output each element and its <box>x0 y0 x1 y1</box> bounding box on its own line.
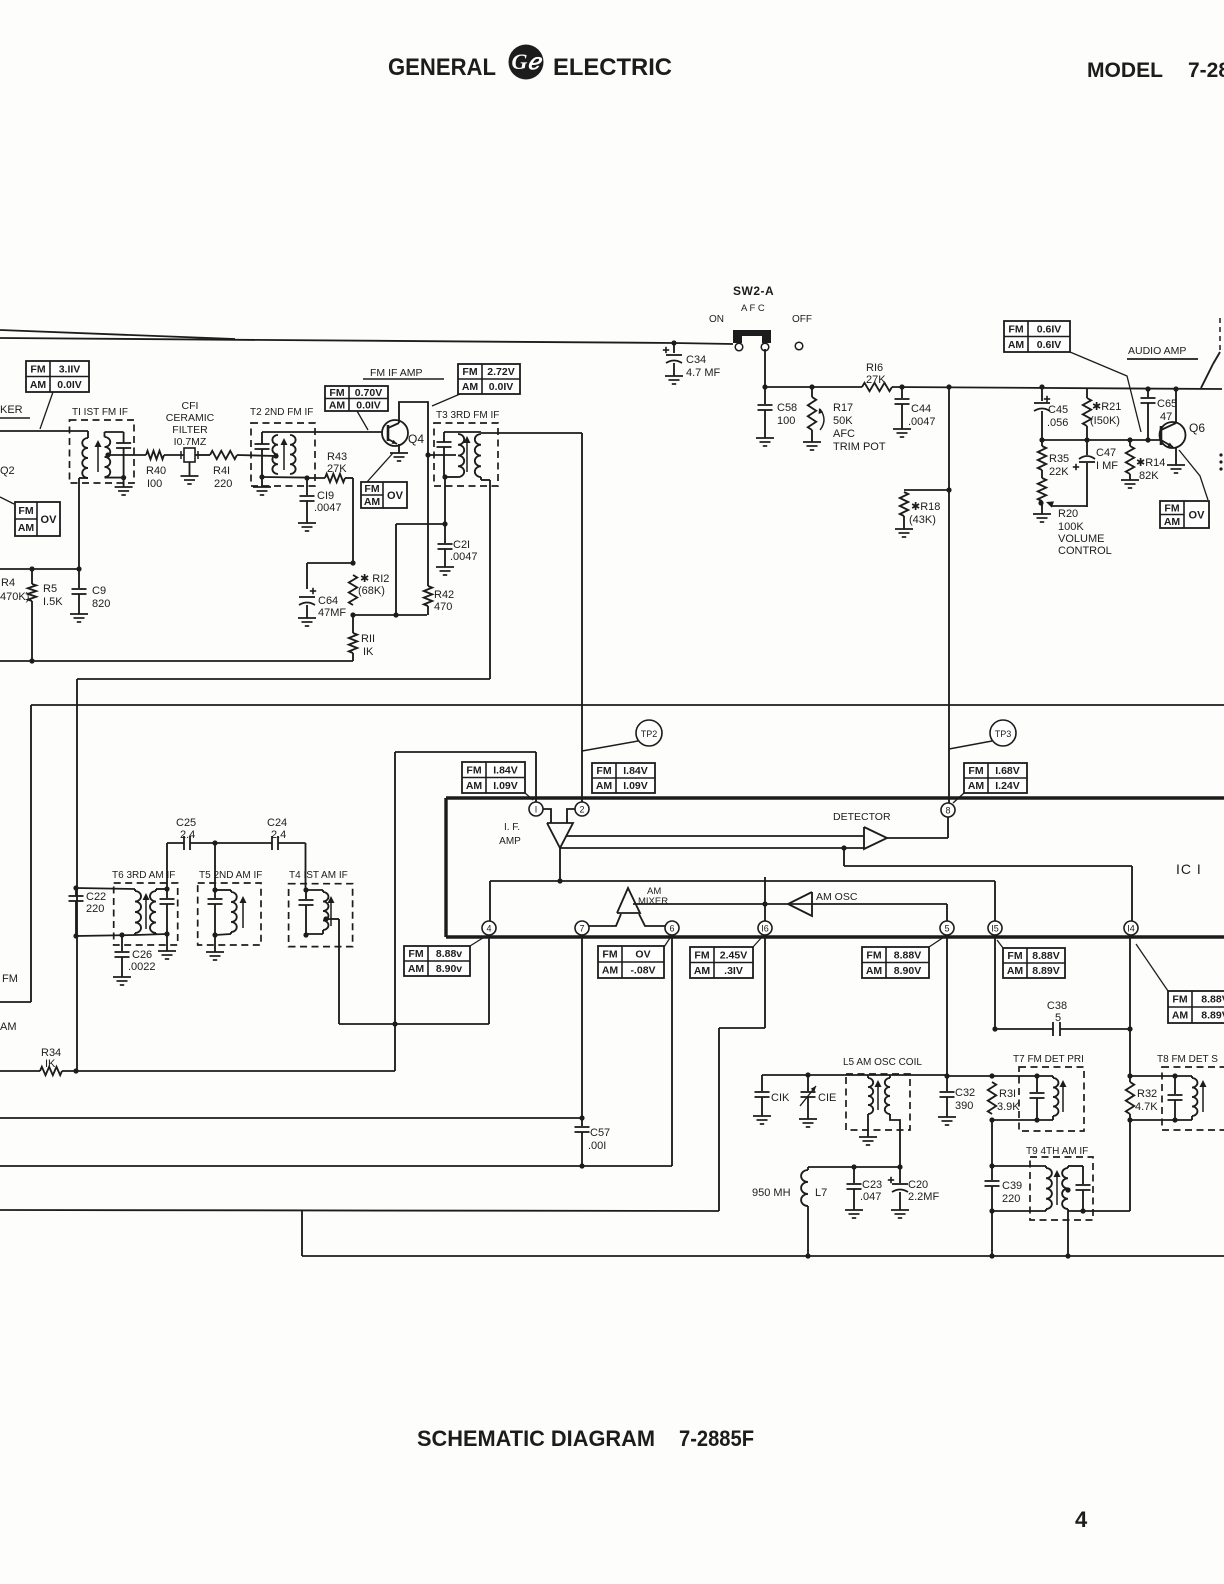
svg-text:✱R14: ✱R14 <box>1136 457 1165 469</box>
svg-text:AM: AM <box>1164 516 1181 528</box>
svg-text:2.4: 2.4 <box>180 829 195 841</box>
svg-text:FM: FM <box>462 366 477 378</box>
svg-text:AUDIO AMP: AUDIO AMP <box>1128 345 1186 357</box>
svg-text:C47: C47 <box>1096 447 1116 459</box>
svg-text:T6 3RD AM IF: T6 3RD AM IF <box>112 870 175 881</box>
svg-text:0.0IV: 0.0IV <box>57 379 82 391</box>
svg-text:MODEL: MODEL <box>1087 59 1163 82</box>
svg-text:R43: R43 <box>327 451 347 463</box>
svg-text:TI IST FM IF: TI IST FM IF <box>72 407 128 418</box>
svg-text:0.6IV: 0.6IV <box>1037 339 1062 351</box>
svg-text:FM: FM <box>329 387 344 399</box>
svg-text:6: 6 <box>669 923 674 933</box>
svg-text:2: 2 <box>579 804 584 814</box>
svg-text:I. F.: I. F. <box>504 822 520 833</box>
svg-text:7-2885F: 7-2885F <box>679 1426 754 1451</box>
svg-text:✱R18: ✱R18 <box>911 501 940 513</box>
svg-text:8.88V: 8.88V <box>1032 950 1059 962</box>
svg-text:FM: FM <box>596 765 611 777</box>
svg-text:DETECTOR: DETECTOR <box>833 811 891 823</box>
svg-text:FM: FM <box>18 505 33 517</box>
svg-text:7: 7 <box>579 923 584 933</box>
svg-text:✱ RI2: ✱ RI2 <box>360 573 389 585</box>
svg-text:(I50K): (I50K) <box>1090 415 1120 427</box>
svg-text:I MF: I MF <box>1096 460 1118 472</box>
svg-text:T5 2ND AM IF: T5 2ND AM IF <box>199 870 262 881</box>
svg-text:AM: AM <box>466 780 483 792</box>
svg-text:R42: R42 <box>434 589 454 601</box>
svg-text:SW2-A: SW2-A <box>733 284 774 298</box>
svg-text:R35: R35 <box>1049 453 1069 465</box>
svg-text:22K: 22K <box>1049 466 1069 478</box>
svg-text:FM: FM <box>1164 502 1179 514</box>
svg-text:I.5K: I.5K <box>43 596 63 608</box>
svg-text:CI9: CI9 <box>317 490 334 502</box>
svg-text:R20: R20 <box>1058 508 1078 520</box>
svg-text:✱R21: ✱R21 <box>1092 401 1121 413</box>
svg-text:8.89V: 8.89V <box>1201 1010 1224 1022</box>
svg-text:FM: FM <box>968 765 983 777</box>
svg-text:OV: OV <box>635 949 650 961</box>
svg-text:I0.7MZ: I0.7MZ <box>174 436 207 448</box>
svg-text:T8 FM DET S: T8 FM DET S <box>1157 1054 1218 1065</box>
svg-text:.0047: .0047 <box>314 502 342 514</box>
svg-text:C39: C39 <box>1002 1180 1022 1192</box>
svg-text:.0047: .0047 <box>908 416 936 428</box>
svg-text:AM: AM <box>0 1021 17 1033</box>
svg-text:SCHEMATIC DIAGRAM: SCHEMATIC DIAGRAM <box>417 1426 655 1451</box>
svg-text:FM: FM <box>866 949 881 961</box>
svg-text:C34: C34 <box>686 354 706 366</box>
svg-text:OV: OV <box>387 490 404 502</box>
svg-text:.056: .056 <box>1047 417 1068 429</box>
svg-text:FM: FM <box>364 483 379 495</box>
svg-text:Q2: Q2 <box>0 465 15 477</box>
svg-text:220: 220 <box>1002 1193 1020 1205</box>
svg-text:AM: AM <box>968 780 985 792</box>
svg-text:C65: C65 <box>1157 398 1177 410</box>
svg-text:CIK: CIK <box>771 1092 790 1104</box>
svg-text:FM: FM <box>30 363 45 375</box>
svg-text:R4: R4 <box>1 577 15 589</box>
svg-text:C44: C44 <box>911 403 931 415</box>
svg-text:FM: FM <box>1007 950 1022 962</box>
svg-text:.0047: .0047 <box>450 551 478 563</box>
svg-text:AM: AM <box>596 780 613 792</box>
svg-text:3.9K: 3.9K <box>997 1101 1020 1113</box>
svg-text:820: 820 <box>92 598 110 610</box>
svg-text:T4 IST AM IF: T4 IST AM IF <box>289 870 348 881</box>
svg-text:L7: L7 <box>815 1187 827 1199</box>
svg-text:C64: C64 <box>318 595 338 607</box>
svg-text:FM: FM <box>466 764 481 776</box>
svg-text:C24: C24 <box>267 817 287 829</box>
svg-text:I.09V: I.09V <box>623 780 648 792</box>
svg-text:I: I <box>535 804 538 814</box>
svg-text:ON: ON <box>709 314 724 325</box>
svg-text:R32: R32 <box>1137 1088 1157 1100</box>
svg-text:0.6IV: 0.6IV <box>1037 323 1062 335</box>
svg-text:TRIM POT: TRIM POT <box>833 441 886 453</box>
svg-text:0.70V: 0.70V <box>355 387 382 399</box>
svg-text:AM: AM <box>1008 339 1025 351</box>
svg-text:.00I: .00I <box>588 1140 606 1152</box>
svg-text:950 MH: 950 MH <box>752 1187 791 1199</box>
svg-text:CIE: CIE <box>818 1092 836 1104</box>
svg-text:C25: C25 <box>176 817 196 829</box>
svg-text:100K: 100K <box>1058 521 1084 533</box>
svg-text:0.0IV: 0.0IV <box>489 381 514 393</box>
svg-text:27K: 27K <box>866 374 886 386</box>
svg-text:CONTROL: CONTROL <box>1058 545 1112 557</box>
svg-text:7-28: 7-28 <box>1188 59 1224 82</box>
svg-text:IC I: IC I <box>1176 861 1202 877</box>
svg-text:AM: AM <box>866 965 883 977</box>
svg-text:C26: C26 <box>132 949 152 961</box>
svg-text:CFI: CFI <box>182 400 199 412</box>
svg-text:C22: C22 <box>86 891 106 903</box>
svg-text:MIXER: MIXER <box>638 896 668 907</box>
svg-text:TP3: TP3 <box>995 729 1012 739</box>
svg-text:5: 5 <box>1055 1012 1061 1024</box>
svg-text:I6: I6 <box>761 923 769 933</box>
svg-text:AM: AM <box>30 379 47 391</box>
svg-text:I00: I00 <box>147 478 162 490</box>
svg-text:470: 470 <box>434 601 452 613</box>
svg-text:8.89V: 8.89V <box>1032 965 1059 977</box>
svg-text:AM: AM <box>694 965 711 977</box>
svg-text:R3I: R3I <box>999 1088 1016 1100</box>
svg-text:220: 220 <box>214 478 232 490</box>
svg-text:T2 2ND FM IF: T2 2ND FM IF <box>250 407 313 418</box>
svg-text:T3 3RD FM IF: T3 3RD FM IF <box>436 410 499 421</box>
svg-text:8.88V: 8.88V <box>1201 994 1224 1006</box>
svg-text:82K: 82K <box>1139 470 1159 482</box>
svg-text:AM: AM <box>462 381 479 393</box>
svg-text:(43K): (43K) <box>909 514 936 526</box>
svg-text:VOLUME: VOLUME <box>1058 533 1104 545</box>
svg-text:AM: AM <box>1007 965 1024 977</box>
svg-text:FM: FM <box>408 948 423 960</box>
svg-text:R40: R40 <box>146 465 166 477</box>
svg-text:2.4: 2.4 <box>271 829 286 841</box>
svg-text:FM: FM <box>694 949 709 961</box>
svg-text:8: 8 <box>945 805 950 815</box>
svg-text:TP2: TP2 <box>641 729 658 739</box>
svg-text:AFC: AFC <box>833 428 855 440</box>
svg-text:390: 390 <box>955 1100 973 1112</box>
svg-text:8.88V: 8.88V <box>894 949 921 961</box>
svg-text:RII: RII <box>361 633 375 645</box>
svg-text:C38: C38 <box>1047 1000 1067 1012</box>
svg-text:OV: OV <box>41 514 58 526</box>
svg-text:I4: I4 <box>1127 923 1135 933</box>
svg-text:AM: AM <box>364 496 381 508</box>
svg-text:AM: AM <box>602 965 619 977</box>
svg-text:470K): 470K) <box>0 591 29 603</box>
svg-text:8.88v: 8.88v <box>436 948 462 960</box>
svg-text:IK: IK <box>45 1058 56 1070</box>
svg-text:CERAMIC: CERAMIC <box>166 412 215 424</box>
svg-text:I.09V: I.09V <box>493 780 518 792</box>
svg-text:FM: FM <box>602 949 617 961</box>
svg-text:L5 AM OSC COIL: L5 AM OSC COIL <box>843 1057 922 1068</box>
svg-text:8.90v: 8.90v <box>436 963 462 975</box>
svg-text:RI6: RI6 <box>866 362 883 374</box>
svg-text:50K: 50K <box>833 415 853 427</box>
svg-text:AM: AM <box>18 522 35 534</box>
svg-text:220: 220 <box>86 903 104 915</box>
svg-text:.0022: .0022 <box>128 961 156 973</box>
svg-text:R4I: R4I <box>213 465 230 477</box>
svg-text:4.7 MF: 4.7 MF <box>686 367 721 379</box>
svg-text:47: 47 <box>1160 411 1172 423</box>
svg-text:I.84V: I.84V <box>493 764 518 776</box>
svg-text:C57: C57 <box>590 1127 610 1139</box>
svg-text:OV: OV <box>1189 509 1206 521</box>
svg-text:C9: C9 <box>92 585 106 597</box>
svg-text:IK: IK <box>363 646 374 658</box>
svg-text:4: 4 <box>1075 1507 1088 1532</box>
svg-text:.047: .047 <box>860 1191 881 1203</box>
svg-text:3.IIV: 3.IIV <box>59 363 81 375</box>
svg-text:ELECTRIC: ELECTRIC <box>553 54 672 81</box>
svg-text:-.08V: -.08V <box>630 965 655 977</box>
svg-text:FM: FM <box>1172 994 1187 1006</box>
svg-text:FM: FM <box>2 973 18 985</box>
svg-text:47MF: 47MF <box>318 607 346 619</box>
svg-text:I.24V: I.24V <box>995 780 1020 792</box>
svg-text:FM IF AMP: FM IF AMP <box>370 367 423 379</box>
svg-text:FM: FM <box>1008 323 1023 335</box>
svg-text:I.68V: I.68V <box>995 765 1020 777</box>
svg-text:C20: C20 <box>908 1179 928 1191</box>
svg-text:A F C: A F C <box>741 303 765 314</box>
svg-text:(68K): (68K) <box>358 585 385 597</box>
svg-text:4.7K: 4.7K <box>1135 1101 1158 1113</box>
svg-text:AMP: AMP <box>499 836 521 847</box>
svg-text:8.90V: 8.90V <box>894 965 921 977</box>
svg-text:R5: R5 <box>43 583 57 595</box>
svg-text:C23: C23 <box>862 1179 882 1191</box>
svg-text:5: 5 <box>944 923 949 933</box>
svg-text:2.45V: 2.45V <box>720 949 747 961</box>
svg-text:KER: KER <box>0 404 23 416</box>
svg-text:4: 4 <box>486 923 491 933</box>
svg-text:AM OSC: AM OSC <box>816 891 858 903</box>
svg-text:T9 4TH AM IF: T9 4TH AM IF <box>1026 1146 1088 1157</box>
svg-text:AM: AM <box>408 963 425 975</box>
svg-text:27K: 27K <box>327 463 347 475</box>
svg-text:2.2MF: 2.2MF <box>908 1191 939 1203</box>
svg-text:.3IV: .3IV <box>724 965 743 977</box>
svg-text:C2I: C2I <box>453 539 470 551</box>
svg-text:2.72V: 2.72V <box>487 366 514 378</box>
svg-text:AM: AM <box>329 399 346 411</box>
svg-text:C45: C45 <box>1048 404 1068 416</box>
svg-text:Q4: Q4 <box>408 432 424 446</box>
svg-text:100: 100 <box>777 415 795 427</box>
svg-text:GENERAL: GENERAL <box>388 54 496 81</box>
svg-text:R17: R17 <box>833 402 853 414</box>
svg-text:T7 FM DET PRI: T7 FM DET PRI <box>1013 1054 1084 1065</box>
svg-text:Q6: Q6 <box>1189 421 1205 435</box>
svg-text:Gℯ: Gℯ <box>512 49 544 74</box>
svg-text:C58: C58 <box>777 402 797 414</box>
svg-text:0.0IV: 0.0IV <box>356 399 381 411</box>
svg-text:AM: AM <box>1172 1010 1189 1022</box>
svg-text:I.84V: I.84V <box>623 765 648 777</box>
svg-text:I5: I5 <box>991 923 999 933</box>
svg-text:OFF: OFF <box>792 314 812 325</box>
svg-text:FILTER: FILTER <box>172 424 208 436</box>
svg-text:C32: C32 <box>955 1087 975 1099</box>
